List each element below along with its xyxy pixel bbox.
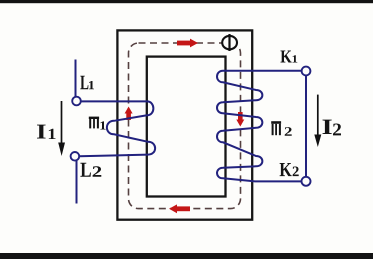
flux arrow left leg (up) [125, 107, 133, 121]
terminal L2 [71, 152, 80, 161]
bottom border bar [0, 253, 373, 259]
current arrow I1 (down) [58, 101, 65, 156]
label W2 [271, 121, 281, 124]
winding W1 (with wires from L1 and to L2) [79, 101, 155, 156]
label L1 [80, 76, 88, 90]
label I1 [37, 125, 46, 139]
transformer core outer edge [117, 30, 252, 219]
label I2 [323, 120, 332, 134]
flux path dashed loop [129, 43, 241, 209]
wire K1 to K2 (right side) [305, 75, 307, 176]
flux arrow bottom (left) [169, 204, 190, 213]
terminal K2 [302, 177, 311, 186]
flux arrow top (right) [177, 39, 198, 48]
wire L1 lead (up) [75, 60, 77, 98]
terminal L1 [72, 97, 81, 106]
top border bar [0, 0, 373, 3]
label K2 [280, 163, 292, 176]
current arrow I2 (down) [314, 95, 321, 147]
label L2 [80, 163, 91, 177]
label W1 [89, 117, 99, 119]
transformer core inner edge (window) [147, 57, 226, 197]
wire L2 lead (down) [76, 161, 78, 204]
flux arrow right leg (down) [236, 112, 244, 127]
winding W2 (wires from K1, to K2) [217, 71, 302, 182]
terminal K1 [302, 67, 311, 76]
label K1 [281, 51, 292, 63]
flux symbol PHI [222, 34, 237, 51]
